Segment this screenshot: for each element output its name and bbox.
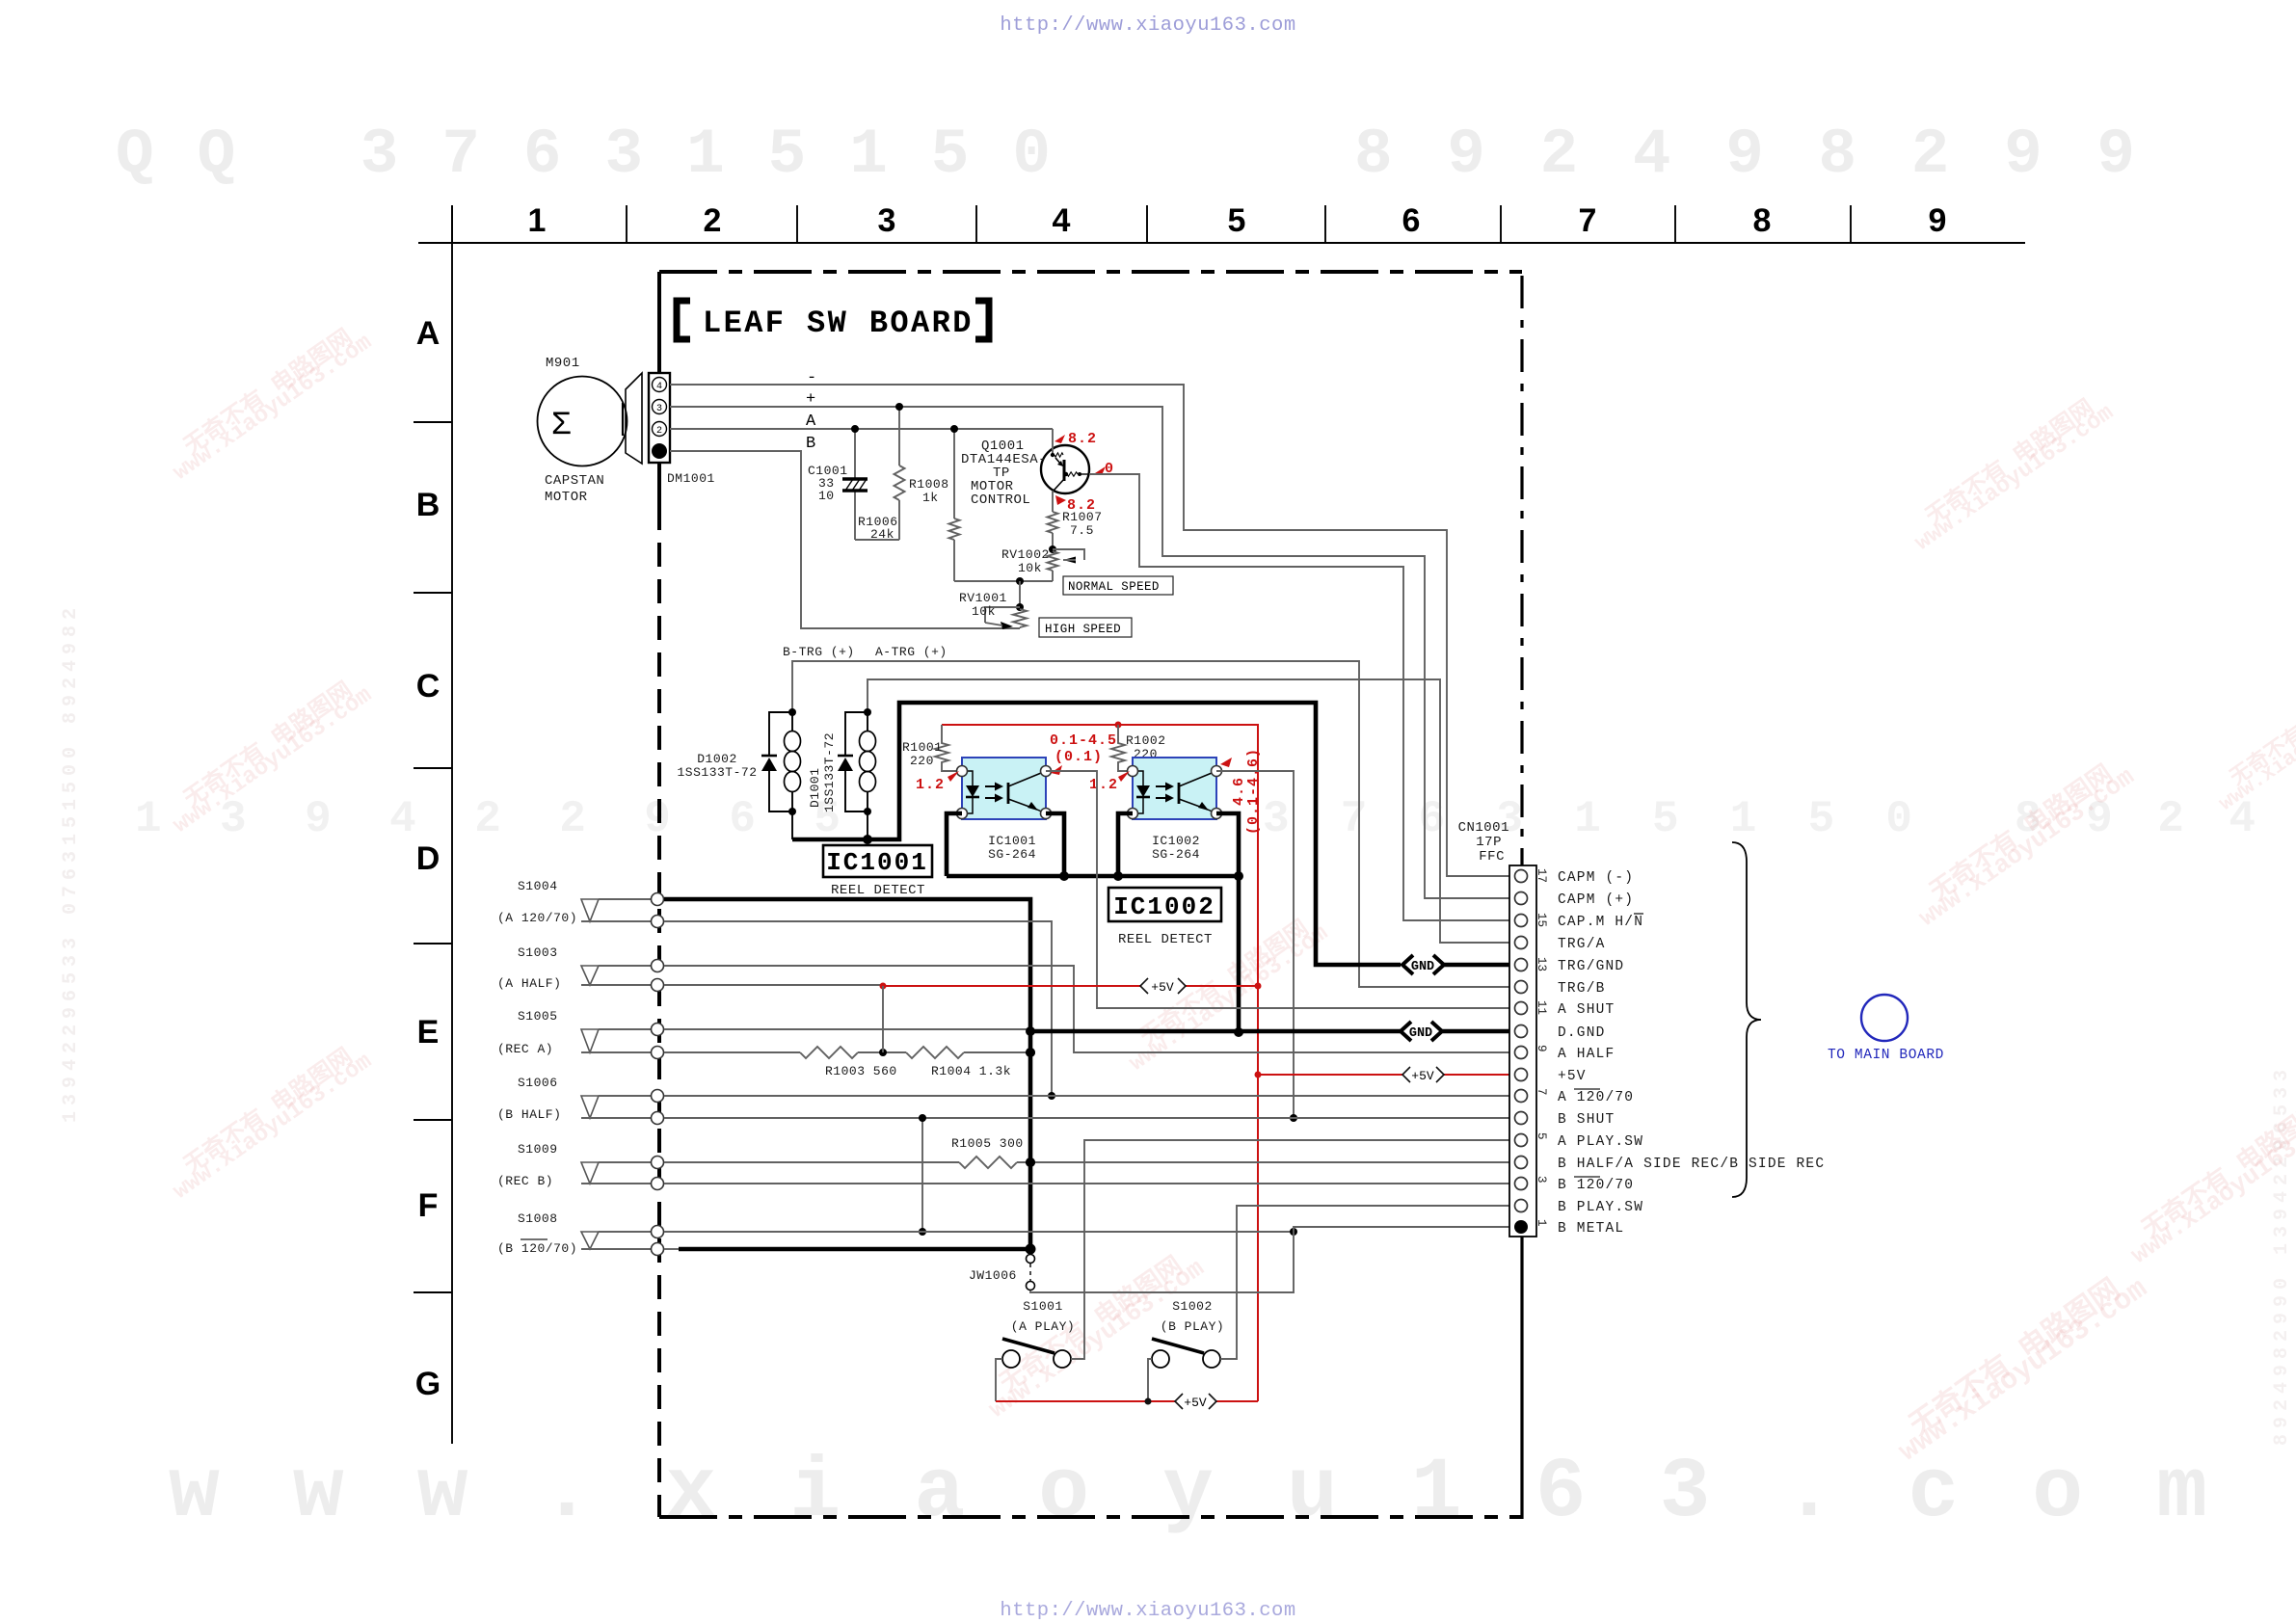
board boundary dash-dot frame: [659, 272, 1522, 1519]
wire S1003 bottom to +5V tap: [664, 984, 883, 986]
svg-text:S1001: S1001: [1023, 1299, 1063, 1314]
switch S1002 (B PLAY): [1152, 1299, 1224, 1368]
svg-text:2: 2: [656, 426, 662, 437]
red annotation 1.2 on IC1002: [1089, 771, 1130, 793]
svg-text:1SS133T-72: 1SS133T-72: [677, 765, 757, 780]
svg-text:R1003 560: R1003 560: [825, 1064, 897, 1078]
svg-text:IC1002: IC1002: [1152, 834, 1200, 848]
svg-text:B PLAY.SW: B PLAY.SW: [1558, 1200, 1643, 1215]
potentiometer RV1001 10k: [959, 581, 1027, 629]
svg-text:SG-264: SG-264: [988, 847, 1036, 862]
wire S1001 right to A PLAY.SW pin5: [1071, 1140, 1513, 1359]
svg-text:(A 120/70): (A 120/70): [497, 911, 577, 925]
svg-text:http://www.xiaoyu163.com: http://www.xiaoyu163.com: [1000, 1600, 1295, 1622]
svg-text:1.2: 1.2: [916, 777, 945, 793]
svg-text:S1006: S1006: [518, 1076, 558, 1090]
svg-text:24k: 24k: [870, 527, 894, 542]
resistor R1002 220: [1111, 725, 1166, 771]
pin 9 of CN1001: [1515, 1047, 1528, 1059]
red annotation 4.6 (0.1-4.6) rotated: [1220, 748, 1262, 835]
resistor R1003 560: [800, 1047, 906, 1078]
pin - of CN1001: [1515, 1025, 1528, 1038]
watermark bottom big text: [169, 1446, 2265, 1541]
svg-text:3: 3: [656, 404, 662, 414]
wire S1002 left to +5V rail: [1148, 1359, 1152, 1401]
svg-text:220: 220: [910, 754, 934, 768]
thick wire IC output common rail: [947, 874, 1239, 879]
svg-text:RV1001: RV1001: [959, 591, 1007, 605]
wire S1009 top through R1005 to pin4: [664, 1161, 959, 1163]
wire vertical S1006 bottom to S1008 top: [921, 1118, 923, 1232]
svg-text:REEL DETECT: REEL DETECT: [1118, 932, 1213, 947]
svg-text:Σ: Σ: [551, 408, 571, 444]
label box IC1001 REEL DETECT: [823, 845, 932, 898]
svg-text:B SHUT: B SHUT: [1558, 1112, 1615, 1128]
GND symbol at D.GND: [1401, 1022, 1442, 1041]
svg-text:(B 120/70): (B 120/70): [497, 1241, 577, 1256]
diode D1002 1SS133T-72 with coil: [677, 708, 800, 815]
svg-text:GND: GND: [1409, 1026, 1432, 1041]
motor M901 capstan motor: [538, 356, 643, 505]
svg-text:D: D: [416, 840, 441, 877]
red annotation 0.1-4.5 (0.1): [1050, 732, 1117, 775]
red annotation 0: [1095, 461, 1114, 477]
svg-text:CAPM (-): CAPM (-): [1558, 870, 1634, 886]
GND symbol at TRG/GND: [1402, 955, 1444, 974]
resistor R1001 220: [902, 725, 962, 771]
svg-text:(0.1-4.6): (0.1-4.6): [1245, 748, 1262, 835]
svg-text:http://www.xiaoyu163.com: http://www.xiaoyu163.com: [1000, 14, 1295, 37]
svg-text:A PLAY.SW: A PLAY.SW: [1558, 1134, 1643, 1150]
svg-text:D.GND: D.GND: [1558, 1025, 1606, 1041]
switch S1001 (A PLAY): [1002, 1299, 1075, 1368]
wire S1009 bottom to pin3 B 120/70: [664, 1183, 1513, 1184]
switch S1008 (B 120/70) leaf contacts: [497, 1211, 664, 1256]
svg-text:R1008: R1008: [909, 477, 949, 492]
label IC1002 SG-264: [1152, 834, 1200, 862]
svg-text:(B PLAY): (B PLAY): [1161, 1319, 1224, 1334]
svg-text:CAP.M H/N: CAP.M H/N: [1558, 915, 1643, 930]
wire junction R1003/R1004 up to +5V tap: [882, 986, 884, 1052]
svg-text:D1002: D1002: [697, 752, 737, 766]
svg-text:17: 17: [1535, 868, 1548, 883]
switch S1009 (REC B) leaf contacts: [497, 1142, 664, 1190]
wire JW1006 to B METAL pin1: [1030, 1227, 1513, 1292]
svg-text:S1008: S1008: [518, 1211, 558, 1226]
pin - of CN1001: [1515, 1157, 1528, 1169]
svg-text:FFC: FFC: [1479, 849, 1505, 865]
svg-text:3: 3: [1535, 1176, 1548, 1184]
svg-text:R1005 300: R1005 300: [951, 1136, 1024, 1151]
wire S1004 bottom to A 120/70 pin7: [664, 921, 1052, 1096]
svg-text:3: 3: [878, 202, 896, 239]
svg-text:4: 4: [1053, 202, 1071, 239]
pin - of CN1001: [1515, 981, 1528, 994]
red annotation 8.2 top: [1055, 431, 1097, 447]
svg-text:R1004 1.3k: R1004 1.3k: [931, 1064, 1011, 1078]
opto-isolator IC1002 SG-264: [1128, 758, 1222, 819]
thick wire D.GND rail to pin10: [1030, 1029, 1401, 1034]
svg-text:IC1001: IC1001: [826, 848, 928, 877]
wire B-TRG to CN1001 pin12 TRG/B: [792, 661, 1513, 987]
svg-text:13: 13: [1535, 957, 1548, 971]
wire S1005 bottom through R1003 R1004: [664, 1051, 800, 1053]
red wire +5V bottom rail: [996, 1400, 1175, 1402]
svg-text:A HALF: A HALF: [1558, 1047, 1615, 1062]
svg-text:GND: GND: [1411, 960, 1434, 974]
pin 13 of CN1001: [1515, 959, 1528, 971]
label box IC1002 REEL DETECT: [1108, 888, 1221, 947]
pin - of CN1001: [1515, 892, 1528, 905]
svg-text:R1001: R1001: [902, 740, 943, 755]
svg-text:B: B: [806, 435, 815, 453]
svg-text:REEL DETECT: REEL DETECT: [831, 883, 925, 898]
svg-text:9: 9: [1929, 202, 1947, 239]
svg-text:8.2: 8.2: [1068, 431, 1097, 447]
svg-text:5: 5: [1535, 1132, 1548, 1140]
svg-text:TRG/GND: TRG/GND: [1558, 959, 1624, 974]
svg-text:376315150: 376315150: [1263, 794, 1937, 844]
jumper JW1006: [969, 1255, 1035, 1290]
svg-text:1: 1: [528, 202, 547, 239]
svg-text:1SS133T-72: 1SS133T-72: [822, 732, 837, 812]
svg-text:10k: 10k: [972, 604, 996, 619]
svg-text:A-TRG (+): A-TRG (+): [875, 645, 948, 659]
thick wire IC1002 output loop: [1118, 813, 1133, 876]
switch S1003 (A HALF) leaf contacts: [497, 945, 664, 992]
svg-text:+5V: +5V: [1151, 980, 1174, 995]
svg-text:1k: 1k: [922, 491, 939, 505]
+5V arrow symbol mid: [1140, 978, 1186, 995]
switch S1005 (REC A) leaf contacts: [497, 1009, 664, 1059]
svg-text:CAPM (+): CAPM (+): [1558, 892, 1634, 908]
svg-text:(B HALF): (B HALF): [497, 1107, 561, 1122]
svg-text:S1003: S1003: [518, 945, 558, 960]
wire CAPM(-) from motor pin4 to CN1001 pin17: [670, 385, 1513, 876]
svg-text:LEAF SW BOARD: LEAF SW BOARD: [703, 306, 974, 341]
wire CAPM(+) from motor pin3 to CN1001 pin16: [670, 407, 1513, 898]
svg-text:G: G: [415, 1366, 441, 1402]
column/row ruler grid: [414, 205, 2025, 1444]
svg-text:A: A: [416, 315, 441, 352]
svg-text:DM1001: DM1001: [667, 471, 715, 486]
switch S1004 (A 120/70) leaf contacts: [497, 879, 664, 928]
red wire +5V to pin8: [1258, 1074, 1402, 1076]
wire S1006 bottom to pin6 B SHUT: [664, 1117, 1513, 1119]
red +5V rail to optocouplers: [942, 725, 1258, 1401]
pin - of CN1001: [1515, 1069, 1528, 1081]
wire S1006 top to pin7 A 120/70: [664, 1095, 1513, 1097]
resistor R1006 24k: [858, 425, 960, 581]
svg-text:(REC B): (REC B): [497, 1174, 553, 1188]
svg-text:IC1001: IC1001: [988, 834, 1036, 848]
red annotation 8.2 bottom: [1055, 495, 1096, 514]
svg-text:11: 11: [1535, 1000, 1548, 1015]
svg-text:(REC A): (REC A): [497, 1042, 553, 1056]
red wire +5V from S1003 to red rail: [883, 985, 1140, 987]
+5V arrow symbol bottom: [1175, 1394, 1216, 1410]
svg-text:S1005: S1005: [518, 1009, 558, 1024]
pin 15 of CN1001: [1515, 915, 1528, 927]
svg-text:TO MAIN BOARD: TO MAIN BOARD: [1828, 1048, 1944, 1063]
watermark faint digits top row: [116, 119, 2164, 191]
svg-text:17P: 17P: [1476, 835, 1502, 850]
svg-text:B-TRG (+): B-TRG (+): [783, 645, 855, 659]
pin - of CN1001: [1515, 937, 1528, 949]
svg-text:+5V: +5V: [1411, 1069, 1434, 1083]
svg-text:D1001: D1001: [808, 767, 822, 808]
svg-text:(0.1): (0.1): [1055, 749, 1103, 765]
svg-text:13942296533 0763151500 8924982: 13942296533 0763151500 8924982: [60, 602, 82, 1123]
thick wire S1008 bottom: [679, 1247, 1030, 1252]
svg-text:892498299: 892498299: [1354, 119, 2164, 191]
resistor R1004 1.3k: [906, 1047, 1030, 1078]
connector CN1001 17P FFC: [1458, 820, 1536, 1237]
svg-text:S1009: S1009: [518, 1142, 558, 1157]
watermark bottom url: [1000, 1600, 1295, 1622]
svg-text:5: 5: [1228, 202, 1246, 239]
watermark top url: [1000, 14, 1295, 37]
svg-text:7: 7: [1535, 1088, 1548, 1096]
svg-text:B 120/70: B 120/70: [1558, 1178, 1634, 1193]
pin - of CN1001: [1515, 1112, 1528, 1125]
svg-text:4: 4: [656, 382, 662, 392]
svg-text:1.2: 1.2: [1089, 777, 1118, 793]
svg-text:6: 6: [1402, 202, 1421, 239]
node TO MAIN BOARD: [1828, 995, 1944, 1063]
pin signal labels: [1558, 870, 1825, 1237]
svg-text:7.5: 7.5: [1070, 523, 1094, 538]
red annotation 1.2 on IC1001: [916, 771, 959, 793]
thick wire coil common to TRG/GND pin13: [792, 703, 1401, 965]
wire Q1001 emitter to CAP.M H/N pin15: [1089, 474, 1513, 920]
svg-text:CONTROL: CONTROL: [971, 492, 1030, 508]
svg-text:NORMAL SPEED: NORMAL SPEED: [1068, 580, 1160, 594]
svg-text:TRG/B: TRG/B: [1558, 981, 1606, 997]
svg-text:+5V: +5V: [1558, 1069, 1587, 1084]
thick wire to D.GND: [1237, 876, 1241, 1032]
wire S1001 left to +5V rail: [996, 1359, 1002, 1401]
svg-text:M901: M901: [546, 356, 580, 371]
resistor R1007 7.5: [1048, 491, 1103, 549]
svg-text:E: E: [417, 1014, 440, 1051]
svg-text:8: 8: [1753, 202, 1772, 239]
wire labels - + A B: [806, 369, 816, 453]
svg-text:9: 9: [1535, 1045, 1548, 1052]
wire S1008 top to B METAL vertical: [664, 1231, 1294, 1233]
svg-text:MOTOR: MOTOR: [545, 490, 588, 505]
svg-text:SG-264: SG-264: [1152, 847, 1200, 862]
pin 17 of CN1001: [1515, 870, 1528, 883]
transistor Q1001 DTA144ESA-TP: [961, 429, 1089, 508]
pin 1 of CN1001: [1514, 1220, 1528, 1234]
svg-text:2: 2: [704, 202, 722, 239]
label IC1001 SG-264: [988, 834, 1036, 862]
wire A from motor pin2 to Q1001 base: [670, 428, 1053, 430]
svg-text:www.xiaoyu163.com: www.xiaoyu163.com: [169, 1446, 2265, 1541]
wire S1002 right to B PLAY.SW pin2: [1220, 1206, 1513, 1359]
svg-text:B HALF/A SIDE REC/B SIDE REC: B HALF/A SIDE REC/B SIDE REC: [1558, 1157, 1825, 1172]
wire S1005 top to D.GND rail: [664, 1028, 1030, 1030]
svg-text:R1007: R1007: [1062, 510, 1103, 524]
potentiometer RV1002 10k: [1001, 545, 1084, 581]
svg-text:+5V: +5V: [1184, 1396, 1207, 1410]
svg-text:F: F: [418, 1187, 439, 1224]
wire IC1002 collector to B SHUT pin6: [1216, 771, 1294, 1118]
pin 3 of CN1001: [1515, 1178, 1528, 1190]
label box HIGH SPEED: [1039, 618, 1132, 637]
connector DM1001 motor pin block: [649, 373, 715, 486]
watermark faint digits middle row: [135, 794, 2275, 844]
pin 5 of CN1001: [1515, 1134, 1528, 1147]
svg-text:R1002: R1002: [1126, 733, 1166, 748]
wire B from motor pin1 to RV1001: [670, 451, 1020, 628]
resistor R1008 1k: [855, 403, 949, 540]
svg-text:A SHUT: A SHUT: [1558, 1002, 1615, 1018]
pin 7 of CN1001: [1515, 1090, 1528, 1103]
svg-text:JW1006: JW1006: [969, 1268, 1017, 1283]
svg-text:S1002: S1002: [1172, 1299, 1213, 1314]
svg-text:C: C: [416, 668, 441, 705]
svg-text:IC1002: IC1002: [1113, 892, 1215, 921]
thick wire S1004 top to GND vertical: [664, 899, 1030, 1249]
svg-text:(A HALF): (A HALF): [497, 976, 561, 991]
svg-text:B: B: [416, 487, 441, 523]
svg-text:10: 10: [818, 489, 835, 503]
capacitor C1001: [808, 425, 868, 540]
svg-text:1: 1: [1535, 1219, 1548, 1227]
wire S1003 top to A HALF pin9: [664, 966, 1513, 1052]
svg-text:TRG/A: TRG/A: [1558, 937, 1606, 952]
thick wire IC1001 output loop: [947, 813, 962, 876]
diode D1001 1SS133T-72 with coil: [808, 708, 876, 815]
pin 11 of CN1001: [1515, 1002, 1528, 1015]
svg-text:139422965: 139422965: [135, 794, 868, 844]
svg-text:(A PLAY): (A PLAY): [1011, 1319, 1075, 1334]
label box NORMAL SPEED: [1063, 576, 1173, 595]
wire A-TRG to CN1001 pin14 TRG/A: [868, 679, 1513, 943]
switch S1006 (B HALF) leaf contacts: [497, 1076, 664, 1125]
svg-text:15: 15: [1535, 913, 1548, 927]
svg-text:HIGH SPEED: HIGH SPEED: [1045, 623, 1121, 636]
svg-text:0.1-4.5: 0.1-4.5: [1050, 732, 1117, 749]
svg-text:S1004: S1004: [518, 879, 558, 893]
title LEAF SW BOARD: [677, 301, 989, 341]
opto-isolator IC1001 SG-264: [957, 758, 1052, 819]
svg-text:CN1001: CN1001: [1458, 820, 1509, 836]
svg-text:7: 7: [1579, 202, 1597, 239]
svg-text:CAPSTAN: CAPSTAN: [545, 473, 604, 489]
node bottom rail of motor control: [954, 580, 1053, 582]
svg-text:10k: 10k: [1018, 561, 1042, 575]
pin - of CN1001: [1515, 1200, 1528, 1212]
+5V arrow symbol at connector: [1402, 1067, 1444, 1083]
brace to main board: [1732, 842, 1761, 1197]
watermark pink rotated texts: [169, 324, 2296, 1470]
svg-text:A 120/70: A 120/70: [1558, 1090, 1634, 1105]
wire IC1001 collector to A SHUT pin11: [1046, 771, 1513, 1008]
svg-text:RV1002: RV1002: [1001, 547, 1050, 562]
svg-text:B METAL: B METAL: [1558, 1221, 1624, 1237]
